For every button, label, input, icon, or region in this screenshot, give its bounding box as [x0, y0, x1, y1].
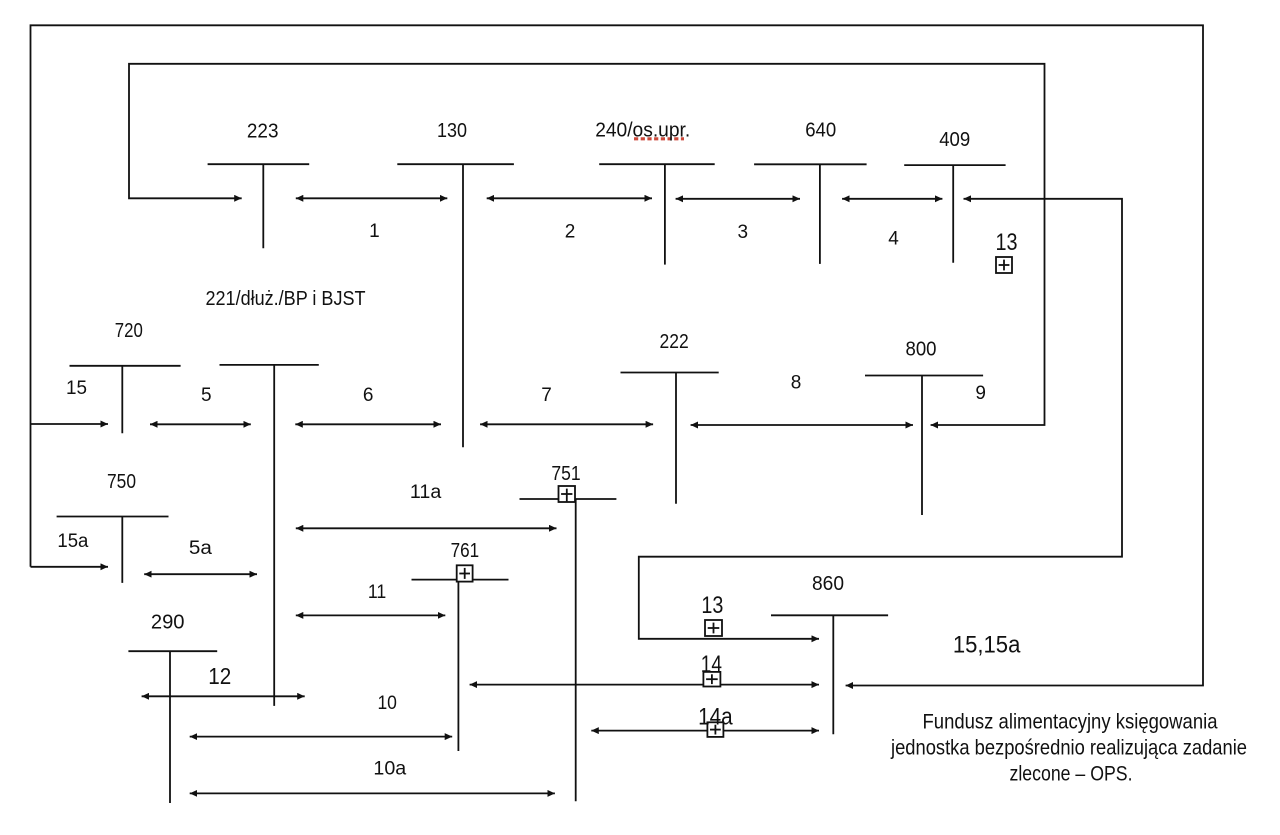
T-account 860 — [771, 615, 888, 734]
svg-text:15,15a: 15,15a — [953, 632, 1021, 659]
plus-box 761 — [457, 565, 473, 581]
arrow 14 — [470, 684, 819, 686]
plus-box 13 top — [996, 257, 1012, 273]
svg-text:11a: 11a — [410, 482, 442, 503]
svg-text:240/os.upr.: 240/os.upr. — [595, 120, 690, 142]
svg-text:10a: 10a — [373, 759, 406, 780]
svg-text:15: 15 — [66, 378, 87, 399]
svg-text:zlecone – OPS.: zlecone – OPS. — [1010, 763, 1133, 786]
arrow 15 branch into 720 — [31, 423, 109, 425]
svg-text:4: 4 — [888, 229, 899, 250]
flow path 9 inner loop — [129, 64, 1045, 425]
svg-text:640: 640 — [805, 119, 836, 141]
svg-text:14: 14 — [701, 651, 722, 678]
svg-text:15a: 15a — [57, 531, 88, 552]
svg-text:5: 5 — [201, 385, 212, 406]
T-account 290 — [128, 651, 217, 803]
arrow 5a — [144, 573, 257, 575]
arrow 5 — [150, 423, 251, 425]
arrow 15a branch into 750 — [31, 566, 109, 568]
svg-text:751: 751 — [551, 463, 580, 485]
svg-text:Fundusz alimentacyjny księgowa: Fundusz alimentacyjny księgowania — [923, 711, 1218, 734]
arrow 1 — [296, 197, 448, 199]
T-account 240 — [599, 164, 715, 264]
arrow 11a — [296, 527, 557, 529]
arrow 2 — [487, 197, 652, 199]
svg-text:jednostka bezpośrednio realizu: jednostka bezpośrednio realizująca zadan… — [890, 737, 1247, 760]
svg-text:409: 409 — [939, 129, 970, 151]
svg-text:130: 130 — [437, 120, 467, 142]
arrow 6 — [295, 423, 441, 425]
svg-text:2: 2 — [565, 222, 576, 243]
arrow 3 — [676, 198, 800, 200]
svg-text:222: 222 — [660, 331, 689, 353]
svg-text:13: 13 — [701, 592, 723, 619]
svg-text:7: 7 — [541, 385, 552, 406]
T-account 221 — [220, 365, 319, 706]
svg-text:8: 8 — [791, 372, 802, 393]
red spellcheck underline under os.upr. — [634, 137, 684, 140]
plus-box 14a — [707, 722, 723, 737]
arrow 11 — [296, 614, 446, 616]
plus-box 751 — [559, 486, 576, 502]
svg-text:750: 750 — [107, 471, 136, 493]
svg-text:800: 800 — [906, 339, 937, 361]
svg-text:6: 6 — [363, 385, 374, 406]
arrow 4 — [842, 198, 942, 200]
T-account 750 — [57, 517, 169, 583]
T-account 222 — [621, 373, 719, 504]
svg-text:290: 290 — [151, 612, 185, 634]
svg-text:761: 761 — [451, 540, 480, 562]
T-account 720 — [70, 366, 181, 433]
svg-text:1: 1 — [369, 221, 380, 242]
svg-text:9: 9 — [975, 383, 986, 404]
arrow 7 — [480, 423, 653, 425]
svg-text:3: 3 — [738, 222, 749, 243]
T-account 751 — [520, 499, 617, 801]
svg-text:13: 13 — [996, 229, 1018, 256]
svg-text:11: 11 — [368, 582, 386, 603]
plus-box 14 — [703, 672, 720, 687]
svg-text:860: 860 — [812, 573, 844, 595]
T-account 409 — [904, 165, 1005, 263]
flow path 13 — [639, 199, 1122, 639]
T-account 223 — [208, 164, 310, 248]
T-account 761 — [412, 580, 509, 751]
svg-text:223: 223 — [247, 121, 279, 143]
arrow 10a — [190, 792, 555, 794]
T-account 130 — [397, 164, 514, 447]
arrow 8 — [691, 424, 913, 426]
arrow 12 — [142, 695, 305, 697]
plus-box 13 bottom — [705, 620, 722, 636]
svg-text:5a: 5a — [189, 538, 212, 559]
T-account 640 — [754, 164, 867, 264]
arrow 14a — [591, 730, 819, 732]
svg-text:720: 720 — [115, 320, 143, 342]
svg-text:14a: 14a — [698, 704, 733, 731]
flow path 15/15a outer loop — [31, 25, 1204, 685]
T-account 800 — [865, 376, 983, 516]
svg-text:10: 10 — [377, 693, 397, 714]
arrow 10 — [190, 736, 453, 738]
svg-text:221/dłuż./BP i BJST: 221/dłuż./BP i BJST — [206, 288, 366, 310]
svg-text:12: 12 — [208, 663, 231, 689]
